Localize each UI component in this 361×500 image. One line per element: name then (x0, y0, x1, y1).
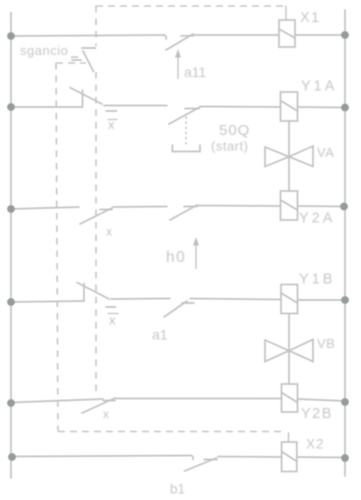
svg-text:Y2B: Y2B (301, 406, 333, 422)
svg-text:X2: X2 (306, 437, 325, 452)
svg-text:(start): (start) (211, 139, 248, 154)
svg-text:Y2A: Y2A (299, 211, 335, 227)
svg-text:Y1A: Y1A (301, 79, 337, 95)
svg-text:x: x (109, 313, 116, 328)
svg-text:X1: X1 (300, 10, 321, 26)
svg-text:VA: VA (317, 145, 334, 160)
svg-text:sgancio: sgancio (20, 43, 68, 58)
svg-text:x: x (103, 407, 109, 421)
svg-text:VB: VB (317, 336, 335, 351)
svg-text:50Q: 50Q (219, 122, 250, 139)
svg-text:a11: a11 (184, 64, 207, 80)
svg-text:x: x (106, 225, 112, 239)
svg-text:b1: b1 (170, 482, 185, 497)
svg-text:Y1B: Y1B (299, 272, 335, 288)
svg-text:h0: h0 (166, 249, 186, 266)
svg-text:a1: a1 (152, 327, 168, 343)
svg-text:x: x (108, 117, 115, 132)
